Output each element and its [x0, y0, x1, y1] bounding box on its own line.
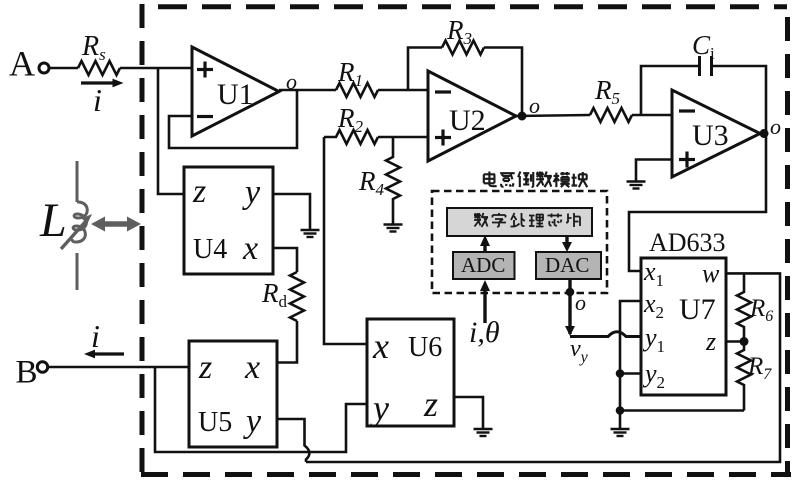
wire y2	[620, 372, 641, 375]
current arrow i (B side)	[84, 318, 124, 358]
module title (Chinese)	[484, 172, 587, 188]
resistor R4	[358, 137, 400, 224]
svg-text:x: x	[372, 326, 389, 366]
感	[500, 173, 515, 187]
ground (U3)	[627, 182, 646, 189]
ground (U4 y)	[301, 230, 320, 237]
wire Rs to U1 + input	[120, 67, 192, 70]
ground (U6)	[474, 429, 493, 436]
svg-text:y: y	[243, 403, 262, 440]
DAC box	[536, 252, 601, 279]
op-amp U1	[192, 47, 279, 136]
wire R1 to U2 - input	[378, 89, 428, 92]
riser to Ci	[641, 66, 700, 115]
resistor R7	[737, 342, 772, 411]
ground (U7 rail)	[611, 429, 630, 436]
svg-text:i: i	[91, 318, 100, 354]
svg-text:R3: R3	[446, 15, 472, 48]
wire U4 y to ground	[273, 194, 310, 230]
multiplier U6	[367, 319, 454, 428]
svg-text:z: z	[705, 327, 716, 356]
svg-text:U7: U7	[679, 293, 716, 326]
resistor Rd	[261, 272, 304, 321]
svg-text:x: x	[242, 230, 258, 267]
ADC box	[453, 252, 515, 279]
svg-text:U1: U1	[217, 78, 254, 111]
处	[511, 213, 525, 227]
multiplier U5	[189, 341, 277, 447]
ground (R4)	[384, 225, 403, 232]
multiplier U7 (AD633)	[641, 257, 726, 395]
inductance reciprocal module dashed box	[432, 191, 607, 293]
wire U2 out to R5	[516, 115, 590, 116]
wire vy to U7 y1 with hop	[570, 332, 641, 337]
svg-text:R2: R2	[337, 103, 364, 136]
svg-text:R1: R1	[337, 57, 363, 90]
wire B-node down and to U6 y	[155, 367, 367, 452]
svg-text:y2: y2	[642, 359, 665, 392]
svg-text:x1: x1	[643, 257, 664, 290]
wire R5 to U3 - input	[632, 114, 672, 117]
op-amp U2	[428, 71, 516, 161]
svg-text:U4: U4	[193, 234, 227, 265]
multiplier U4	[184, 167, 273, 274]
U1 feedback wire	[169, 90, 297, 148]
svg-text:z: z	[423, 384, 438, 424]
terminal B	[16, 355, 48, 391]
svg-text:U5: U5	[198, 407, 232, 438]
svg-text:y: y	[242, 174, 261, 211]
svg-text:w: w	[702, 259, 720, 288]
数	[474, 213, 488, 227]
arrow chip to DAC	[562, 236, 572, 252]
chip box text (Chinese)	[474, 213, 580, 227]
svg-text:o: o	[575, 290, 586, 315]
double-headed arrow	[91, 217, 141, 232]
svg-text:vy: vy	[570, 336, 589, 366]
svg-text:B: B	[16, 355, 38, 391]
svg-text:Rs: Rs	[81, 31, 106, 64]
svg-text:o: o	[770, 114, 781, 139]
wire R7 to ground rail	[620, 409, 744, 412]
arrow i,theta into ADC	[469, 280, 500, 349]
junction y2	[616, 369, 625, 378]
模	[554, 172, 570, 187]
arrow ADC to chip	[480, 235, 490, 252]
svg-text:R4: R4	[358, 166, 385, 199]
倒	[518, 172, 533, 188]
adjustable arrow through L	[61, 214, 92, 249]
电	[484, 172, 497, 187]
wire R2-node vertical to U6 x	[324, 137, 367, 344]
inductor L	[72, 161, 87, 290]
resistor R5	[590, 75, 632, 122]
resistor R2	[324, 103, 378, 144]
digital processing chip box	[447, 208, 592, 236]
svg-text:y: y	[370, 388, 389, 428]
svg-text:i: i	[93, 82, 102, 118]
resistor R3	[442, 15, 484, 55]
svg-text:y1: y1	[642, 323, 665, 356]
svg-text:DAC: DAC	[545, 253, 589, 277]
wire B to U5 z	[49, 366, 190, 369]
wire R3 to U2 output	[484, 48, 522, 117]
svg-text:Ci: Ci	[692, 30, 715, 63]
wire Rd to U5 x	[277, 321, 297, 363]
wire A-node down to U4 z	[158, 68, 184, 194]
junction U3 output	[760, 129, 769, 138]
junction z node	[740, 337, 749, 346]
svg-text:A: A	[9, 44, 35, 84]
svg-text:z: z	[192, 173, 206, 210]
svg-text:x: x	[244, 349, 260, 386]
svg-text:R6: R6	[749, 295, 773, 325]
outer dashed border	[141, 4, 791, 475]
svg-text:ADC: ADC	[461, 253, 505, 277]
理	[529, 215, 544, 227]
字	[492, 213, 506, 227]
svg-text:x2: x2	[643, 289, 664, 322]
块	[572, 172, 588, 187]
svg-text:U2: U2	[449, 104, 486, 137]
数	[536, 172, 552, 188]
svg-text:z: z	[198, 349, 212, 386]
junction R7 return	[616, 406, 625, 415]
svg-text:o: o	[529, 93, 540, 118]
wire U3 output down to U7 x1	[629, 134, 766, 272]
芯	[548, 214, 563, 226]
wire A to Rs	[49, 67, 79, 70]
op-amp U3	[672, 90, 760, 177]
svg-text:U6: U6	[408, 332, 442, 363]
wire U1 output to R1	[279, 89, 336, 92]
wire U3 + input to ground	[636, 160, 672, 182]
wire H2 bottom bus to U7 w	[306, 273, 780, 462]
terminal A	[9, 44, 49, 84]
resistor R1	[336, 57, 378, 97]
resistor Rs	[78, 31, 120, 75]
svg-text:R7: R7	[747, 353, 772, 383]
wire z to junction	[726, 340, 744, 343]
svg-text:Rd: Rd	[261, 278, 288, 311]
wire R2 to U2 + input	[378, 136, 428, 139]
片	[566, 213, 580, 227]
svg-text:AD633: AD633	[649, 228, 726, 257]
wire x2 to ground rail	[620, 301, 641, 429]
wire Ci to U3 output	[712, 66, 767, 134]
svg-text:R5: R5	[594, 75, 620, 108]
svg-text:U3: U3	[692, 119, 729, 152]
resistor R6	[737, 273, 773, 341]
svg-text:L: L	[39, 194, 67, 247]
svg-text:i,θ: i,θ	[469, 316, 500, 349]
wire U4 x to Rd	[273, 248, 297, 272]
capacitor Ci	[692, 30, 715, 76]
junction U2 output	[518, 112, 527, 121]
DAC output wire with node o	[565, 279, 586, 336]
current arrow i (A side)	[81, 79, 124, 118]
wire node to R3 (feedback riser)	[408, 48, 442, 91]
wire U5 y to H2 with hop	[277, 419, 309, 462]
wire U6 z to ground	[454, 397, 483, 429]
